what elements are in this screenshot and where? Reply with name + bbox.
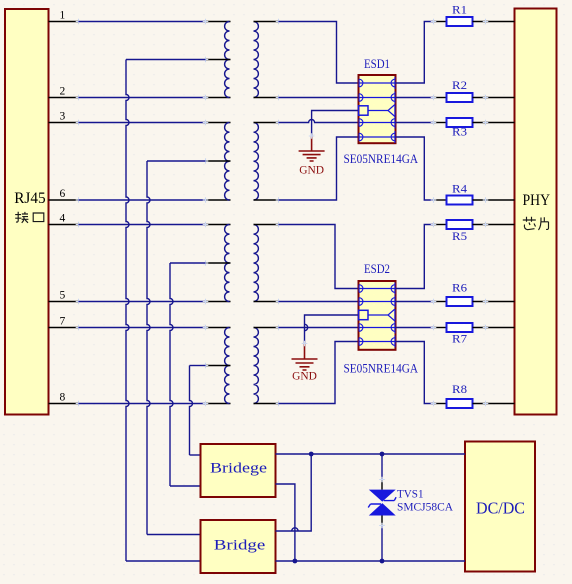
wire RJ45 pin 2 to transformer xyxy=(79,97,206,99)
svg-text:SE05NRE14GA: SE05NRE14GA xyxy=(344,361,419,376)
transformer T1 secondary stubs xyxy=(254,21,279,23)
wire ESD2 pin8 to R5 xyxy=(396,225,434,289)
svg-text:GND: GND xyxy=(292,371,317,383)
resistor R1 xyxy=(434,21,447,23)
wire T3 top to ESD2 pin1 xyxy=(279,225,359,289)
svg-text:RJ45: RJ45 xyxy=(14,190,45,207)
pin 1 hotspot cross xyxy=(76,19,82,25)
transformer T2 secondary stubs xyxy=(254,122,279,124)
ESD2 pin row 4 xyxy=(359,327,396,329)
IC ESD2 SE05NRE14GA body xyxy=(359,281,396,350)
wire ESD1 pin6(row) to R3 xyxy=(396,122,434,124)
pin 5 of RJ45 (black stub) xyxy=(49,301,79,303)
wire RJ45 pin 6 to transformer xyxy=(79,199,206,201)
transformer T2 primary winding (line side) xyxy=(225,123,230,201)
wire tap T1 to Bridge (vertical bus 1) xyxy=(126,59,206,61)
pin 3 of RJ45 (black stub) xyxy=(49,122,79,124)
transformer T1 secondary winding (PHY side) xyxy=(254,22,259,98)
wire RJ45 pin 8 to transformer xyxy=(79,403,206,405)
wire T4 bottom to ESD2 pin5 xyxy=(279,342,359,404)
wire ESD2 pin5-right to R8 xyxy=(396,342,434,404)
wire ESD1 pin5-right to R4 xyxy=(396,137,434,200)
svg-text:R2: R2 xyxy=(452,78,467,92)
pin 2 hotspot cross xyxy=(76,95,82,101)
pin 8 hotspot cross xyxy=(76,401,82,407)
wire RJ45 pin 7 to transformer xyxy=(79,327,206,329)
wire RJ45 pin 5 to transformer xyxy=(79,301,206,303)
wire tap T3 to Bridege (vertical bus 3) xyxy=(170,262,206,264)
wire ESD1 pin8 to R1 xyxy=(396,22,434,84)
svg-text:7: 7 xyxy=(60,316,66,328)
svg-text:PHY: PHY xyxy=(523,192,551,209)
svg-text:SE05NRE14GA: SE05NRE14GA xyxy=(344,151,419,166)
pin 8 of RJ45 (black stub) xyxy=(49,403,79,405)
IC ESD1 SE05NRE14GA body xyxy=(359,75,396,143)
ground GND1 symbol xyxy=(299,136,325,161)
resistor R2 xyxy=(434,97,447,99)
wire RJ45 pin 3 to transformer xyxy=(79,122,206,124)
svg-text:ESD1: ESD1 xyxy=(364,56,390,71)
resistor R7 xyxy=(434,327,447,329)
wire ESD2 pin6(row) to R7 xyxy=(396,327,434,329)
pin 2 of RJ45 (black stub) xyxy=(49,97,79,99)
diode TVS1 vertical wire xyxy=(381,454,383,480)
wire ESD2 pin3 to GND2 xyxy=(305,315,359,344)
wire T2 bottom to ESD1 pin5 xyxy=(279,137,359,200)
wire T4 top to ESD2 pin4 (row to R7) xyxy=(279,327,359,329)
ESD1 pin row 1 xyxy=(359,82,396,84)
block U4 Bridge box xyxy=(201,520,276,573)
svg-text:1: 1 xyxy=(60,10,66,22)
pin 4 hotspot cross xyxy=(76,222,82,228)
pin 4 of RJ45 (black stub) xyxy=(49,224,79,226)
wire ESD1 pin7 to R2 xyxy=(396,97,434,99)
wire bottom rail Bridge to DC/DC xyxy=(276,560,466,562)
svg-text:R5: R5 xyxy=(452,229,467,243)
label 接口 (port) hanzi strokes xyxy=(15,212,44,223)
ESD1 pin row 3 xyxy=(359,106,369,115)
svg-text:ESD2: ESD2 xyxy=(364,261,390,276)
wire hop Bridge output over vertical xyxy=(292,528,298,531)
resistor R5 xyxy=(434,224,447,226)
svg-text:2: 2 xyxy=(60,86,66,98)
wire Bridege lower output down to bottom rail xyxy=(276,484,295,561)
wire RJ45 pin 1 to transformer xyxy=(79,21,206,23)
transformer T1 primary winding (line side) xyxy=(225,22,230,98)
block U3 Bridege box xyxy=(201,444,276,497)
ESD2 pin row 5 xyxy=(359,341,396,343)
ESD2 pin row 1 xyxy=(359,288,396,290)
transformer T4 primary winding (line side) xyxy=(225,328,230,404)
svg-text:R6: R6 xyxy=(452,281,467,295)
transformer T3 secondary winding (PHY side) xyxy=(254,225,259,302)
label 芯片 (chip) hanzi strokes xyxy=(523,217,549,230)
svg-text:4: 4 xyxy=(60,213,66,225)
vertical hop over row7 on GND2 riser xyxy=(305,324,308,330)
svg-text:DC/DC: DC/DC xyxy=(476,499,525,518)
resistor R8 xyxy=(434,403,447,405)
svg-text:R8: R8 xyxy=(452,382,467,396)
diode TVS1 bidirectional TVS symbol xyxy=(369,490,396,502)
svg-text:3: 3 xyxy=(60,111,66,123)
transformer T3 secondary stubs xyxy=(254,224,279,226)
resistor R6 xyxy=(434,301,447,303)
ESD1 pin row 5 xyxy=(359,136,396,138)
junction dots xyxy=(309,452,314,457)
transformer T3 primary winding (line side) xyxy=(225,225,230,302)
wire ESD2 pin7 to R6 xyxy=(396,301,434,303)
svg-text:8: 8 xyxy=(60,392,66,404)
svg-text:R1: R1 xyxy=(452,3,467,17)
ESD2 pin row 2 xyxy=(359,301,396,303)
transformer T2 center tap stub xyxy=(206,160,231,162)
ESD1 pin row 2 xyxy=(359,97,396,99)
ESD1 pin row 4 xyxy=(359,122,396,124)
wire top rail Bridege to DC/DC xyxy=(276,453,466,455)
pin 7 of RJ45 (black stub) xyxy=(49,327,79,329)
IC U2 PHY box xyxy=(515,9,557,415)
pin 6 of RJ45 (black stub) xyxy=(49,199,79,201)
wire RJ45 pin 4 to transformer xyxy=(79,224,206,226)
svg-text:5: 5 xyxy=(60,290,66,302)
pin 7 hotspot cross xyxy=(76,325,82,331)
transformer T4 secondary winding (PHY side) xyxy=(254,328,259,404)
wire tap T2 to Bridge (vertical bus 2) xyxy=(147,160,206,162)
wire tap T4 to Bridege (vertical bus 4) xyxy=(190,365,206,367)
svg-text:SMCJ58CA: SMCJ58CA xyxy=(397,502,454,514)
wire T3 bottom to ESD2 pin2 (row to R6) xyxy=(279,301,359,303)
ground GND2 symbol xyxy=(292,344,318,371)
svg-text:GND: GND xyxy=(299,165,324,177)
pin 5 hotspot cross xyxy=(76,299,82,305)
svg-text:6: 6 xyxy=(60,188,66,200)
pin 1 of RJ45 (black stub) xyxy=(49,21,79,23)
svg-text:Bridege: Bridege xyxy=(210,460,267,476)
transformer T4 secondary stubs xyxy=(254,327,279,329)
pin 3 hotspot cross xyxy=(76,120,82,126)
transformer T2 secondary winding (PHY side) xyxy=(254,123,259,201)
pin 6 hotspot cross xyxy=(76,197,82,203)
wire ESD1 pin3 to GND1 xyxy=(312,111,359,137)
svg-text:R7: R7 xyxy=(452,332,467,346)
svg-text:Bridge: Bridge xyxy=(214,537,266,553)
transformer T1 center tap stub xyxy=(206,59,231,61)
ESD2 pin row 3 xyxy=(359,310,369,319)
transformer T3 center tap stub xyxy=(206,262,231,264)
transformer T4 center tap stub xyxy=(206,365,231,367)
wire T1 top to ESD1 pin1 xyxy=(279,22,359,84)
wire T2 top to ESD1 pin4 (row to R3, hop over GND1 riser) xyxy=(279,120,359,123)
resistor R3 xyxy=(434,122,447,124)
svg-text:R3: R3 xyxy=(452,125,467,139)
svg-text:R4: R4 xyxy=(452,182,467,196)
block U5 DC/DC box xyxy=(465,442,535,572)
resistor R4 xyxy=(434,199,447,201)
wire Bridge upper output to top rail riser xyxy=(276,454,312,531)
connector J1 RJ45 box xyxy=(5,9,49,415)
wire T1 bottom to ESD1 pin2 (row to R2) xyxy=(279,97,359,99)
svg-text:TVS1: TVS1 xyxy=(397,488,424,500)
